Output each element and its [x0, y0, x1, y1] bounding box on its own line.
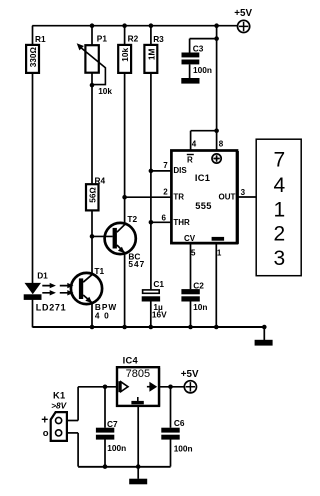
svg-text:DIS: DIS	[173, 166, 187, 175]
wire C1 bottom lead	[150, 301, 152, 327]
svg-text:C2: C2	[193, 280, 204, 290]
+5V symbol top	[234, 8, 252, 32]
pin 1 ground bar inside IC	[212, 237, 225, 241]
wire C6 top lead	[170, 387, 172, 428]
node bottom rail T1	[90, 325, 95, 330]
svg-text:2: 2	[163, 188, 168, 197]
wire C2 bottom lead	[190, 301, 192, 327]
wire T2 emitter to bottom rail	[124, 253, 126, 328]
node top rail at R2	[122, 23, 127, 28]
wire THR pin 6 stub	[151, 221, 171, 223]
node bottom rail ground	[262, 325, 267, 330]
svg-text:56Ω: 56Ω	[88, 187, 98, 203]
svg-text:100n: 100n	[174, 444, 193, 454]
svg-text:R1: R1	[35, 34, 46, 44]
diode D1 (LD271 IR LED)	[24, 270, 67, 312]
svg-text:100n: 100n	[107, 443, 126, 453]
wire pin4 to pin8 link	[191, 131, 217, 150]
svg-text:100n: 100n	[193, 65, 212, 75]
node bottom rail pin1	[214, 325, 219, 330]
pin label plus-supply symbol	[212, 154, 221, 163]
svg-text:THR: THR	[173, 218, 190, 227]
svg-text:8: 8	[219, 139, 224, 148]
svg-text:R: R	[187, 155, 193, 164]
resistor R3	[144, 34, 164, 73]
svg-text:>8V: >8V	[51, 400, 67, 410]
capacitor C6	[161, 418, 192, 454]
node P1 wiper	[90, 83, 95, 88]
svg-text:R4: R4	[95, 175, 106, 185]
wire R2 top lead	[124, 26, 126, 45]
node 7805 ground	[136, 464, 141, 469]
node bottom rail T2	[122, 325, 127, 330]
IC U1 (IC1 555 timer)	[162, 139, 246, 257]
wire bottom ground rail	[33, 326, 265, 328]
svg-text:3: 3	[273, 247, 285, 270]
node DIS	[149, 169, 154, 174]
wire C3 to ground	[189, 64, 191, 78]
svg-text:4: 4	[273, 174, 285, 197]
node TR	[122, 195, 127, 200]
svg-text:+5V: +5V	[181, 369, 199, 380]
wire C7 top lead	[104, 387, 106, 428]
node C7 input rail	[103, 385, 108, 390]
potentiometer P1	[77, 34, 113, 96]
resistor R2	[118, 34, 138, 73]
wire 7805 output to +5V	[160, 386, 184, 388]
wire C3 tap	[190, 39, 217, 53]
wire TR pin 2 stub	[125, 196, 171, 198]
svg-text:330Ω: 330Ω	[28, 46, 38, 67]
svg-text:+5V: +5V	[234, 8, 252, 19]
wire pin 1 to bottom rail	[215, 244, 217, 327]
svg-text:555: 555	[195, 201, 211, 211]
svg-text:7805: 7805	[126, 368, 150, 380]
svg-text:10n: 10n	[193, 302, 207, 312]
svg-text:1M: 1M	[146, 48, 156, 60]
wire C7 bottom lead	[104, 440, 106, 467]
svg-text:5: 5	[191, 249, 196, 258]
wire OUT pin 3 stub	[238, 196, 256, 198]
svg-text:D1: D1	[37, 270, 48, 280]
svg-text:LD271: LD271	[36, 303, 67, 313]
connector K1	[41, 390, 67, 441]
wire R3 bottom to DIS, THR, C1	[150, 73, 152, 289]
svg-text:16V: 16V	[152, 309, 167, 319]
svg-text:3: 3	[241, 188, 246, 197]
resistor R1	[26, 34, 46, 73]
svg-text:o: o	[43, 428, 49, 439]
wire top +5V rail	[32, 25, 237, 27]
node bottom rail C1	[149, 325, 154, 330]
wire riser up	[77, 387, 79, 421]
wire 7805 ground lead	[137, 407, 139, 467]
wire R1 top lead	[32, 26, 34, 45]
wire ground stub main	[263, 327, 265, 340]
svg-text:1: 1	[273, 198, 285, 221]
node top rail at P1	[90, 23, 95, 28]
svg-text:6: 6	[162, 214, 167, 223]
node bottom rail C2	[188, 325, 193, 330]
wire riser down	[77, 433, 79, 467]
svg-text:CV: CV	[184, 234, 196, 243]
wire T1 emitter to bottom rail	[91, 303, 93, 328]
svg-text:T1: T1	[94, 266, 104, 276]
7805 internal ground	[137, 397, 139, 401]
wire R1 bottom lead down to D1	[32, 73, 34, 283]
svg-text:IC4: IC4	[123, 356, 139, 366]
svg-text:40: 40	[95, 310, 113, 320]
node C3 tap	[214, 36, 219, 41]
node top rail at pin8 branch	[214, 23, 219, 28]
svg-text:TR: TR	[173, 192, 184, 201]
transistor Q2 (T2 BC547)	[92, 197, 145, 269]
wire P1 bottom lead to wiper node	[91, 73, 93, 85]
capacitor C1 (electrolytic 1u 16V)	[142, 279, 167, 320]
wire R3 top lead	[150, 26, 152, 45]
node top rail at R3	[149, 23, 154, 28]
wire K1 minus to riser	[67, 432, 78, 434]
ground main	[255, 340, 273, 346]
resistor R4	[86, 175, 105, 210]
wire P1 top lead	[91, 26, 93, 46]
wire bottom supply rail	[78, 466, 171, 468]
voltage regulator IC4 7805	[117, 356, 159, 407]
node pin4/pin8 link	[214, 128, 219, 133]
node T2 base	[90, 234, 95, 239]
svg-text:R3: R3	[153, 34, 164, 44]
ground below C3	[181, 78, 199, 84]
svg-text:7: 7	[273, 149, 285, 172]
7805 input arrow	[118, 381, 120, 392]
svg-text:T2: T2	[127, 214, 137, 224]
svg-text:R2: R2	[128, 34, 139, 44]
svg-text:K1: K1	[53, 390, 65, 400]
connector block 74123	[256, 139, 301, 276]
svg-text:C6: C6	[174, 418, 185, 428]
wire DIS pin 7 stub	[151, 170, 171, 172]
7805 output arrow	[147, 386, 150, 388]
svg-text:4: 4	[192, 139, 197, 148]
wire D1 cathode to bottom rail	[32, 300, 34, 328]
svg-text:C3: C3	[193, 44, 204, 54]
wire input rail to 7805	[78, 386, 116, 388]
ground power section	[129, 479, 147, 485]
node C7 bottom	[103, 464, 108, 469]
wire pin 5 to C2	[190, 244, 192, 289]
svg-text:+: +	[41, 413, 48, 427]
svg-text:C7: C7	[107, 419, 118, 429]
svg-text:1: 1	[217, 249, 222, 258]
svg-text:P1: P1	[97, 34, 108, 44]
node C6 output rail	[168, 385, 173, 390]
transistor Q1 (T1 BPW40 phototransistor)	[60, 266, 117, 320]
svg-text:7: 7	[163, 161, 168, 170]
wire node wiper to R4	[91, 85, 93, 184]
svg-text:10k: 10k	[120, 47, 130, 61]
svg-text:IC1: IC1	[195, 173, 210, 183]
+5V symbol bottom	[181, 369, 199, 393]
wire +5V vertical to pin 8	[216, 26, 218, 131]
emission arrows from D1	[42, 286, 50, 293]
svg-text:10k: 10k	[98, 86, 112, 96]
wire K1 plus to riser	[67, 420, 78, 422]
wire R4 to T2 base node to T1 collector	[91, 210, 93, 274]
svg-text:2: 2	[273, 223, 285, 246]
svg-text:547: 547	[128, 259, 145, 269]
capacitor C7	[96, 419, 126, 453]
capacitor C3	[182, 44, 212, 75]
svg-text:C1: C1	[153, 279, 164, 289]
photo arrows into T1	[60, 286, 68, 293]
capacitor C2	[181, 280, 207, 312]
node THR	[149, 220, 154, 225]
wire C6 bottom lead	[170, 440, 172, 467]
wire ground stub bottom	[137, 467, 139, 479]
svg-text:OUT: OUT	[219, 192, 236, 201]
wire R2 bottom lead to TR node	[124, 73, 126, 197]
